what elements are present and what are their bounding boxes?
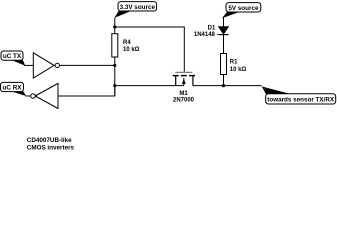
callout label 3.3V source bbox=[114, 2, 156, 18]
wire: RX output stub bbox=[26, 95, 31, 97]
node D: R1 junction dot bbox=[222, 84, 225, 87]
svg-text:2N7000: 2N7000 bbox=[173, 98, 195, 104]
svg-text:R4: R4 bbox=[123, 40, 131, 46]
inverter U1 (uC TX buffer) bbox=[33, 53, 59, 78]
diode D1 bbox=[194, 26, 229, 38]
svg-text:D1: D1 bbox=[208, 26, 216, 32]
wire: top rail from 3.3V node to gate corner bbox=[115, 18, 185, 72]
svg-text:3.3V source: 3.3V source bbox=[120, 4, 156, 11]
svg-text:CMOS inverters: CMOS inverters bbox=[27, 145, 75, 150]
svg-text:M1: M1 bbox=[179, 91, 188, 97]
callout label uC TX bbox=[1, 51, 25, 66]
annotation: CD4007UB-like CMOS inverters bbox=[27, 137, 75, 152]
wire: vertical tie TX-out / RX-in / main line bbox=[114, 65, 116, 95]
svg-text:1N4148 –: 1N4148 – bbox=[194, 32, 221, 38]
svg-text:5V source: 5V source bbox=[228, 5, 259, 12]
svg-text:uC RX: uC RX bbox=[3, 85, 23, 92]
node C: main-line junction dot bbox=[113, 84, 116, 87]
transistor M1 2N7000 bbox=[173, 72, 195, 103]
wire: TX input bbox=[24, 64, 33, 66]
node B: TX output junction dot bbox=[113, 64, 116, 67]
body leg with arrow bbox=[183, 78, 185, 86]
gate plate bbox=[175, 71, 192, 73]
wire: TX output bbox=[59, 64, 115, 66]
channel caps bbox=[173, 75, 179, 77]
svg-text:uC TX: uC TX bbox=[3, 53, 22, 60]
node A: 3.3V junction dot bbox=[113, 25, 116, 28]
inverter U2 (uC RX buffer) bbox=[31, 83, 58, 108]
resistor R1 bbox=[221, 54, 247, 86]
wire: main line right (5V side) from MOSFET drain bbox=[193, 85, 262, 87]
wire: 5V feed down to diode bbox=[223, 18, 225, 27]
svg-text:10 kΩ: 10 kΩ bbox=[230, 67, 247, 73]
source leg bbox=[175, 76, 177, 86]
wire: diode to R1 bbox=[223, 35, 225, 54]
svg-text:10 kΩ: 10 kΩ bbox=[123, 47, 140, 53]
svg-text:R1: R1 bbox=[230, 59, 238, 65]
svg-text:CD4007UB-like: CD4007UB-like bbox=[27, 137, 72, 144]
callout label towards sensor TX/RX bbox=[261, 85, 336, 104]
drain leg bbox=[192, 76, 194, 86]
svg-text:towards sensor TX/RX: towards sensor TX/RX bbox=[267, 97, 335, 104]
callout label 5V source bbox=[222, 3, 261, 19]
resistor R4 bbox=[112, 27, 140, 65]
wire: RX input from tie point bbox=[58, 86, 115, 96]
wire: main line left (3.3V side) to MOSFET source bbox=[115, 85, 184, 87]
callout label uC RX bbox=[1, 82, 27, 96]
